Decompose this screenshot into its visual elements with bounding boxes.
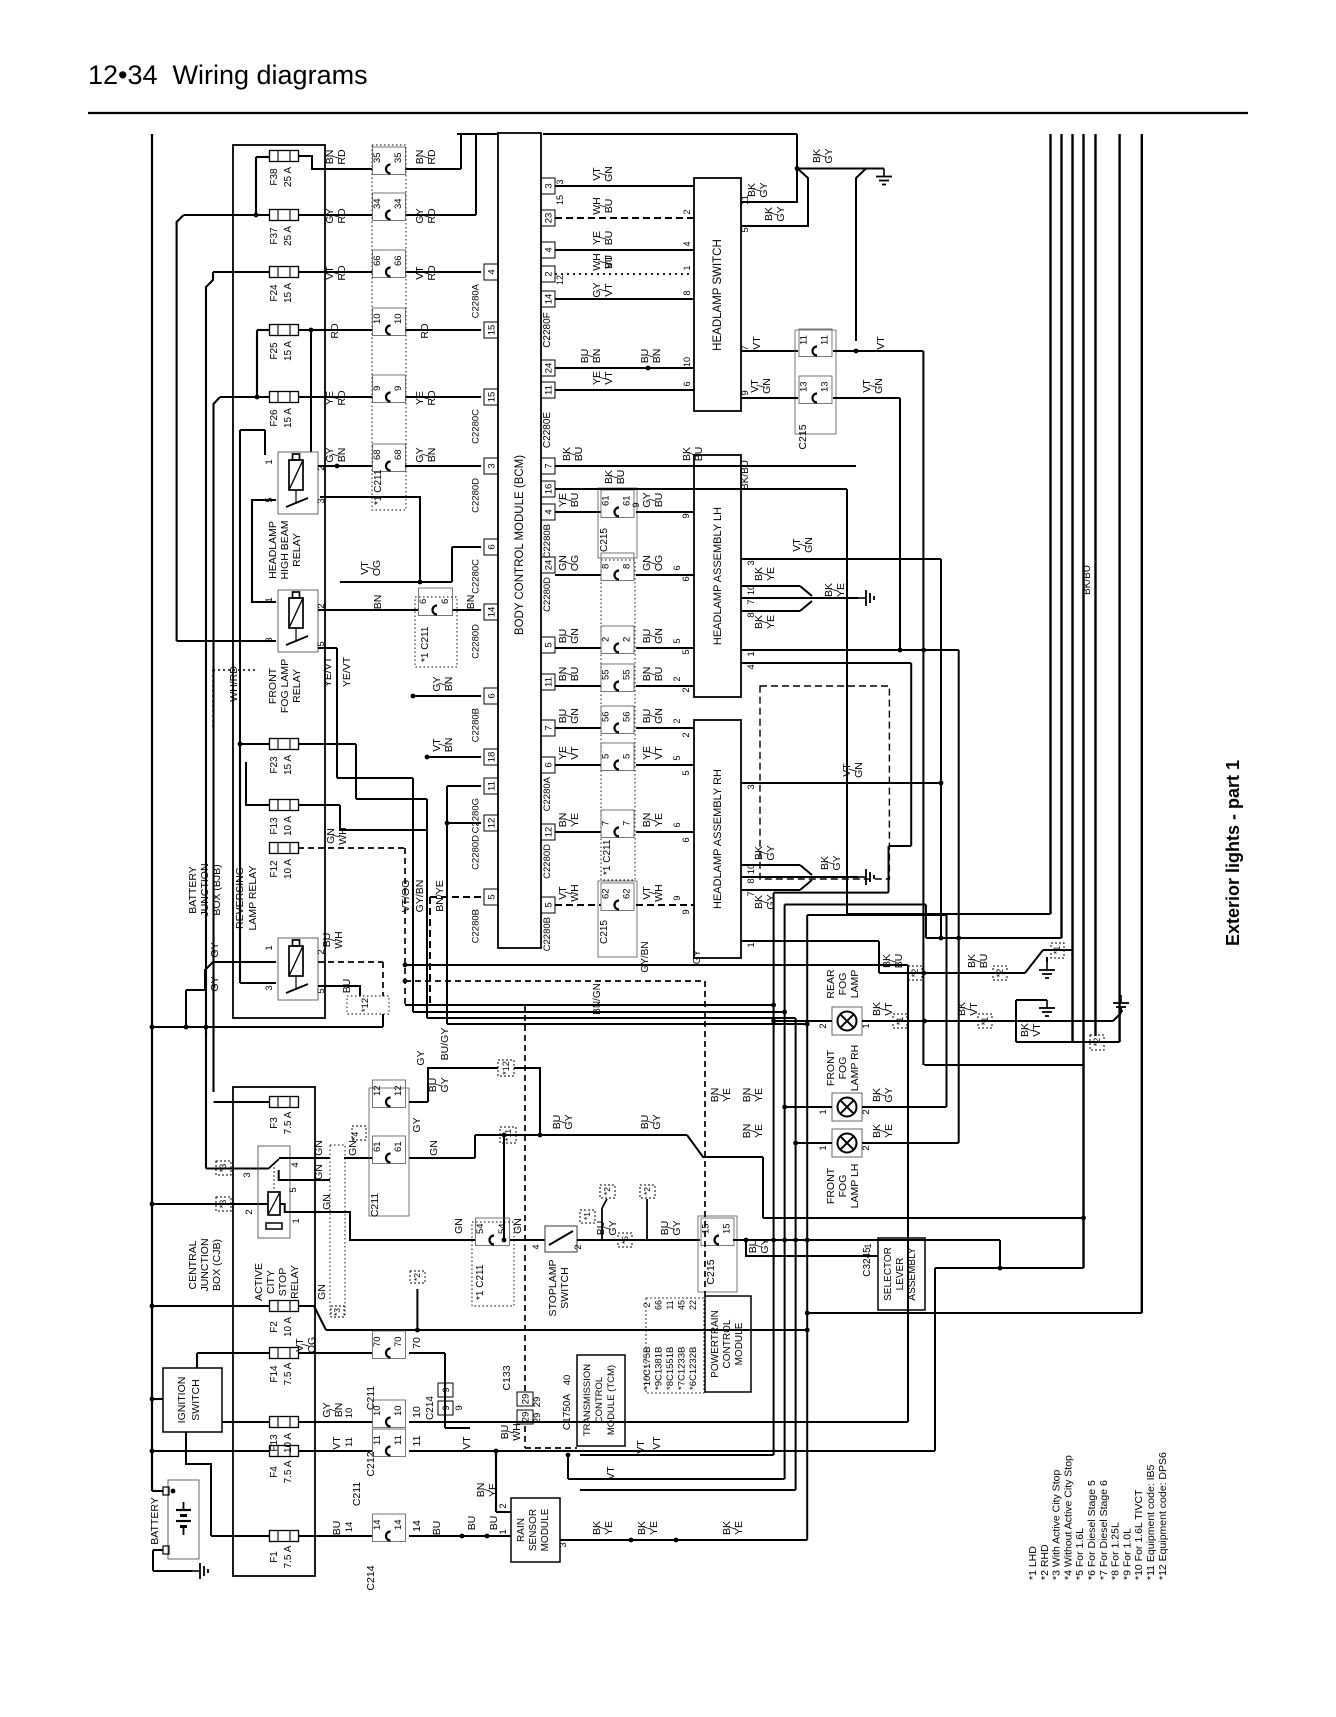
- powertrain connectors: [642, 1298, 704, 1393]
- wire selector row: [763, 1216, 1086, 1221]
- svg-text:7: 7: [544, 725, 555, 730]
- svg-text:MODULE: MODULE: [540, 1508, 551, 1551]
- svg-text:6: 6: [672, 822, 682, 827]
- svg-text:BU: BU: [431, 1521, 443, 1536]
- svg-text:WH/RD: WH/RD: [228, 666, 240, 702]
- svg-text:RD: RD: [426, 390, 438, 406]
- page title: [88, 60, 368, 90]
- connector box *3 upper: [216, 1161, 231, 1175]
- svg-text:C2280D: C2280D: [542, 844, 553, 879]
- battery symbol: [163, 1487, 191, 1554]
- svg-text:*1 C211: *1 C211: [420, 626, 431, 662]
- svg-text:18: 18: [487, 752, 498, 763]
- svg-text:GN: GN: [873, 378, 885, 394]
- svg-text:*3: *3: [218, 1200, 228, 1209]
- svg-text:VT: VT: [461, 1436, 473, 1450]
- svg-text:GN: GN: [313, 1164, 325, 1180]
- wire F23 output YE/VT: [298, 656, 356, 799]
- svg-text:6: 6: [418, 599, 429, 604]
- svg-text:9: 9: [672, 895, 682, 900]
- wire names C2280EF: [542, 312, 553, 448]
- wire row to 795: [427, 1018, 796, 1490]
- svg-text:13: 13: [820, 381, 831, 392]
- wire front fog RH pin1: [741, 1088, 832, 1115]
- wire rear fog pin2: [771, 1019, 832, 1029]
- wire F37 output GY/RD: [298, 134, 476, 224]
- svg-text:12: 12: [487, 818, 498, 829]
- wire stoplamp to C215 BU/GY: [577, 1185, 700, 1247]
- connector strip *3 dotted: [316, 1145, 345, 1317]
- svg-text:11: 11: [411, 1435, 423, 1446]
- wire F13 feed: [246, 762, 270, 805]
- label headlamp high beam relay: [267, 521, 303, 580]
- svg-text:5: 5: [622, 754, 633, 759]
- svg-text:RELAY: RELAY: [289, 1265, 301, 1299]
- wire switch 11 BK/GY: [741, 169, 797, 203]
- svg-text:YE: YE: [733, 1521, 745, 1535]
- wire rear fog pin1 BK/VT: [861, 1002, 1121, 1029]
- svg-text:2: 2: [544, 271, 555, 276]
- connector C211 pin6: [415, 588, 457, 667]
- svg-text:C212: C212: [365, 1451, 377, 1476]
- svg-text:4: 4: [544, 509, 555, 514]
- svg-text:66: 66: [372, 255, 383, 266]
- svg-text:*1 LHD: *1 LHD: [1027, 1546, 1039, 1580]
- svg-text:VT: VT: [635, 1440, 647, 1454]
- svg-text:10: 10: [372, 1405, 383, 1416]
- svg-text:BATTERY: BATTERY: [187, 866, 199, 913]
- svg-text:16: 16: [544, 484, 555, 495]
- svg-text:54: 54: [475, 1223, 486, 1234]
- svg-text:YE: YE: [835, 583, 847, 597]
- svg-text:F37: F37: [269, 227, 280, 245]
- wire tap F25: [255, 330, 270, 399]
- svg-text:55: 55: [601, 669, 612, 680]
- svg-text:*8C1551B: *8C1551B: [665, 1347, 676, 1390]
- bus wire 7 BK/BU: [805, 134, 1142, 1315]
- svg-text:GN: GN: [569, 708, 581, 724]
- svg-text:HEADLAMP SWITCH: HEADLAMP SWITCH: [712, 239, 724, 351]
- label battery: [149, 1497, 161, 1544]
- svg-text:STOPLAMP: STOPLAMP: [547, 1260, 559, 1317]
- wire BCM-switch 8 GY/VT: [541, 255, 694, 307]
- svg-text:*12 Equipment code: DPS6: *12 Equipment code: DPS6: [1157, 1452, 1169, 1580]
- dashed variant box RH: [760, 686, 889, 879]
- bus wire 1: [847, 134, 1051, 914]
- svg-text:*2: *2: [1092, 1038, 1102, 1047]
- svg-text:*1: *1: [980, 1017, 990, 1026]
- wire left trunk: [151, 134, 153, 1491]
- svg-text:ASSEMBLY: ASSEMBLY: [907, 1247, 918, 1300]
- svg-text:CITY: CITY: [265, 1270, 277, 1294]
- svg-text:2: 2: [316, 949, 327, 954]
- svg-text:11: 11: [544, 385, 555, 395]
- svg-text:3: 3: [746, 560, 757, 565]
- svg-text:*7C1233B: *7C1233B: [677, 1347, 688, 1390]
- svg-text:56: 56: [601, 711, 612, 722]
- wire dashed BCM5 left: [430, 897, 481, 1005]
- ground LH: [858, 590, 874, 606]
- body control module box: [498, 133, 541, 948]
- wire BCM7 BK/BU: [555, 460, 847, 914]
- wire F23 feed: [240, 430, 270, 744]
- svg-text:BK/BU: BK/BU: [1082, 565, 1093, 595]
- svg-text:FRONT: FRONT: [825, 1049, 837, 1086]
- relay reversing lamp: [264, 938, 327, 1000]
- diagram title Exterior lights - part 1: [1223, 760, 1243, 946]
- svg-text:BU: BU: [331, 1521, 343, 1536]
- label front fog lamp relay: [267, 659, 303, 713]
- svg-text:2: 2: [682, 209, 692, 214]
- wire rear fog loop: [925, 1064, 1084, 1066]
- svg-text:3: 3: [544, 183, 555, 188]
- wire BCM5 BU/GN to LH5: [555, 626, 694, 654]
- svg-text:*2: *2: [642, 1187, 652, 1195]
- wire ACS pin1 GN: [290, 1194, 524, 1240]
- svg-text:7.5 A: 7.5 A: [283, 1545, 294, 1568]
- svg-text:BU: BU: [653, 493, 665, 508]
- powertrain control module box: [705, 1296, 751, 1392]
- svg-text:GY: GY: [415, 1050, 427, 1065]
- wire reversing relay pin5: [318, 986, 383, 1027]
- svg-text:F23: F23: [269, 756, 280, 774]
- svg-text:9: 9: [441, 1405, 452, 1410]
- svg-text:68: 68: [372, 449, 383, 460]
- svg-text:GN: GN: [803, 537, 815, 553]
- svg-text:C2280D: C2280D: [471, 835, 482, 870]
- wire row to 784: [413, 905, 926, 1480]
- svg-text:BU: BU: [603, 199, 615, 214]
- svg-text:*1: *1: [1052, 946, 1062, 955]
- svg-text:BN: BN: [336, 448, 348, 463]
- central junction box CJB: [233, 1087, 315, 1576]
- svg-text:GY: GY: [831, 855, 843, 870]
- label rain sensor module: [516, 1508, 551, 1551]
- relay headlamp high beam: [264, 452, 327, 514]
- wire diag to row950: [1025, 943, 1073, 973]
- svg-text:5: 5: [672, 638, 682, 643]
- wire BCM-switch 10 BU/BN: [541, 349, 694, 376]
- svg-text:RD: RD: [426, 208, 438, 224]
- svg-text:FRONT: FRONT: [267, 667, 279, 704]
- svg-text:F12: F12: [269, 860, 280, 878]
- ground rear fog: [1113, 995, 1129, 1013]
- rain sensor module box: [511, 1498, 560, 1562]
- svg-text:LAMP RH: LAMP RH: [849, 1045, 861, 1092]
- svg-text:GN: GN: [653, 708, 665, 724]
- svg-text:*9C1381B: *9C1381B: [654, 1347, 665, 1390]
- svg-text:2: 2: [244, 1209, 255, 1214]
- wire BCM-switch 6 YE/VT: [541, 371, 694, 398]
- svg-text:*12: *12: [501, 1061, 511, 1075]
- svg-text:F24: F24: [269, 284, 280, 302]
- wire LH1 row: [741, 648, 959, 653]
- svg-text:BODY CONTROL MODULE (BCM): BODY CONTROL MODULE (BCM): [514, 455, 526, 635]
- svg-text:VT: VT: [651, 1436, 663, 1450]
- wire switch 5 BK/GY: [741, 169, 808, 227]
- headlamp switch box: [694, 178, 741, 411]
- svg-text:10: 10: [393, 1405, 404, 1416]
- fuse F14 7.5A: [269, 1348, 299, 1386]
- svg-text:BU: BU: [569, 493, 581, 508]
- svg-text:66: 66: [654, 1300, 664, 1310]
- svg-text:8: 8: [746, 878, 757, 883]
- wire BCM11 BN/BU to LH2: [555, 664, 694, 692]
- wire relay2 pin2 BN: [318, 595, 481, 610]
- svg-text:15: 15: [555, 195, 565, 205]
- headlamp assembly LH box: [694, 455, 741, 697]
- svg-text:BN: BN: [426, 448, 438, 463]
- svg-text:GY: GY: [765, 845, 777, 860]
- svg-text:GY: GY: [823, 148, 835, 163]
- svg-text:*6C1232B: *6C1232B: [688, 1347, 699, 1390]
- wire top ground BK/GY: [795, 134, 884, 171]
- svg-text:45: 45: [677, 1300, 687, 1310]
- wire C214 9 connector: [425, 1383, 470, 1428]
- svg-text:1: 1: [682, 265, 692, 270]
- svg-text:OG: OG: [371, 560, 383, 576]
- svg-text:15: 15: [701, 1223, 712, 1234]
- svg-text:GN: GN: [603, 166, 615, 182]
- svg-text:BN: BN: [651, 349, 663, 364]
- svg-text:GN: GN: [453, 1218, 465, 1234]
- svg-text:15 A: 15 A: [283, 341, 294, 361]
- svg-text:YE: YE: [653, 813, 665, 827]
- svg-text:FOG: FOG: [837, 973, 849, 996]
- svg-text:GN: GN: [853, 762, 865, 778]
- svg-text:1: 1: [861, 1023, 872, 1028]
- svg-text:25 A: 25 A: [283, 226, 294, 246]
- svg-text:GY: GY: [692, 949, 703, 964]
- wire BCM5b VT/WH dashed to RH9: [555, 881, 694, 957]
- svg-text:F14: F14: [269, 1365, 280, 1383]
- wire relay feed from F25: [309, 328, 314, 452]
- wire LH4 chain: [741, 663, 911, 893]
- svg-text:C215: C215: [705, 1259, 717, 1284]
- wire BK collector row: [879, 954, 1025, 980]
- svg-text:4: 4: [682, 241, 692, 246]
- svg-text:BK/BU: BK/BU: [740, 460, 751, 490]
- svg-text:1: 1: [291, 1218, 302, 1223]
- wire LH grounds BK/YE: [741, 567, 858, 629]
- svg-text:BN: BN: [443, 677, 455, 692]
- selector lever assembly box: [878, 1238, 925, 1310]
- svg-text:C2280A: C2280A: [471, 283, 482, 318]
- svg-text:WH: WH: [569, 884, 581, 902]
- svg-text:24: 24: [544, 363, 555, 374]
- svg-text:*2 RHD: *2 RHD: [1039, 1544, 1051, 1580]
- svg-text:C2280D: C2280D: [542, 577, 553, 612]
- svg-text:15 A: 15 A: [283, 755, 294, 775]
- svg-text:BOX (CJB): BOX (CJB): [211, 1239, 223, 1291]
- svg-text:10 A: 10 A: [283, 816, 294, 836]
- wire F26 output YE/RD: [298, 390, 481, 406]
- svg-text:GN: GN: [512, 1218, 524, 1234]
- svg-text:BU: BU: [604, 255, 615, 269]
- svg-text:GY: GY: [758, 182, 770, 197]
- label headlamp assembly RH: [712, 769, 724, 909]
- svg-text:10: 10: [344, 1408, 355, 1419]
- wire BCM6 YE/VT to RH5: [555, 743, 694, 771]
- svg-text:*5 For 1.6L: *5 For 1.6L: [1074, 1528, 1086, 1580]
- svg-text:CONTROL: CONTROL: [722, 1319, 733, 1368]
- svg-text:GY: GY: [651, 1114, 663, 1129]
- svg-text:29: 29: [532, 1397, 543, 1408]
- connector box *3 lower: [216, 1197, 231, 1211]
- svg-text:REAR: REAR: [825, 969, 837, 999]
- wire relay2 feed: [177, 640, 276, 642]
- footnotes: [1027, 1452, 1169, 1580]
- wire reversing relay GY: [184, 942, 276, 1029]
- svg-text:7: 7: [746, 599, 757, 604]
- svg-text:34: 34: [393, 198, 404, 209]
- svg-text:1: 1: [264, 945, 275, 950]
- wire reversing relay feed: [238, 742, 276, 983]
- wire cluster to BCM 6: [411, 676, 481, 698]
- svg-text:GY: GY: [439, 1077, 451, 1092]
- svg-text:29: 29: [532, 1413, 543, 1424]
- svg-text:2: 2: [861, 1109, 872, 1114]
- svg-text:*1 C211: *1 C211: [602, 839, 613, 875]
- svg-text:4: 4: [746, 664, 757, 669]
- wire BCM12 BN/YE to RH6: [555, 810, 694, 838]
- bus wire 2: [926, 134, 1062, 940]
- svg-text:25 A: 25 A: [283, 167, 294, 187]
- connector C211 row 54: [420, 1218, 545, 1306]
- svg-text:SELECTOR: SELECTOR: [883, 1247, 894, 1301]
- svg-text:1: 1: [746, 651, 757, 656]
- wire F38 output BN/RD: [298, 134, 461, 169]
- BCM right pins: [541, 458, 555, 951]
- bus wire 4: [1082, 134, 1084, 1268]
- svg-text:WH: WH: [337, 827, 349, 845]
- svg-text:JUNCTION: JUNCTION: [199, 863, 211, 916]
- svg-text:22: 22: [688, 1300, 698, 1310]
- wire F12 output GN/WH dashed: [298, 827, 405, 1005]
- svg-text:C1750A: C1750A: [562, 1394, 573, 1430]
- wire BCM-switch 12 WH/VT dotted: [541, 253, 694, 285]
- svg-text:TRANSMISSION: TRANSMISSION: [582, 1364, 593, 1436]
- svg-text:BATTERY: BATTERY: [149, 1497, 161, 1544]
- svg-text:*6 For Diesel Stage 5: *6 For Diesel Stage 5: [1086, 1480, 1098, 1580]
- label BCM: [514, 455, 526, 635]
- svg-text:3: 3: [746, 784, 757, 789]
- connector C215 15: [698, 1216, 737, 1292]
- svg-text:3: 3: [316, 498, 327, 503]
- svg-text:3: 3: [487, 463, 498, 468]
- svg-text:RD: RD: [426, 149, 438, 165]
- svg-text:10 A: 10 A: [283, 859, 294, 879]
- svg-text:LAMP LH: LAMP LH: [849, 1164, 861, 1209]
- svg-text:23: 23: [544, 213, 555, 224]
- ground RH: [858, 869, 874, 885]
- svg-text:IGNITION: IGNITION: [176, 1377, 188, 1424]
- wire row dashed long: [403, 979, 705, 1296]
- svg-text:RAIN: RAIN: [516, 1518, 527, 1542]
- wire tap F38: [254, 157, 270, 217]
- wire selector row2: [935, 1268, 1084, 1451]
- wire GY to BU/GY riser: [409, 1028, 763, 1218]
- svg-text:1: 1: [746, 942, 757, 947]
- wire BCM-switch 3 VT/GN: [541, 166, 694, 194]
- fuse F2 10A: [269, 1301, 299, 1338]
- svg-text:35: 35: [393, 152, 404, 163]
- svg-text:SWITCH: SWITCH: [190, 1379, 202, 1420]
- svg-text:13: 13: [799, 381, 810, 392]
- svg-text:4: 4: [531, 1244, 541, 1249]
- svg-text:10: 10: [393, 313, 404, 324]
- svg-text:*1: *1: [895, 1017, 905, 1026]
- svg-text:7.5 A: 7.5 A: [283, 1362, 294, 1385]
- fuse F24 15A: [269, 267, 299, 304]
- svg-text:4: 4: [487, 269, 498, 274]
- svg-text:YE/VT: YE/VT: [322, 656, 334, 687]
- svg-text:6: 6: [487, 693, 498, 698]
- svg-text:RELAY: RELAY: [291, 669, 303, 703]
- wire trunk to ignition switch: [150, 1397, 163, 1402]
- wire BCM4 YE/BU to LH9: [555, 488, 694, 558]
- battery junction box BJB: [233, 145, 325, 1018]
- svg-text:F3: F3: [269, 1117, 280, 1129]
- svg-text:3: 3: [558, 1542, 569, 1547]
- svg-text:1: 1: [818, 1145, 829, 1150]
- svg-text:F26: F26: [269, 409, 280, 427]
- svg-text:VT: VT: [653, 746, 665, 760]
- svg-text:FOG: FOG: [837, 1175, 849, 1198]
- svg-text:40: 40: [562, 1375, 573, 1386]
- wire BCM16 BK/BU: [555, 447, 856, 466]
- svg-text:BN: BN: [465, 595, 477, 610]
- connector C1750A 40: [562, 1375, 573, 1430]
- svg-text:6: 6: [440, 599, 451, 604]
- svg-text:3: 3: [242, 1172, 253, 1177]
- svg-text:C2280E: C2280E: [542, 412, 553, 448]
- svg-text:29: 29: [521, 1394, 532, 1405]
- svg-text:*4 Without Active City Stop: *4 Without Active City Stop: [1062, 1455, 1074, 1580]
- svg-text:14: 14: [411, 1520, 423, 1532]
- svg-text:SENSOR: SENSOR: [528, 1509, 539, 1551]
- svg-text:12: 12: [555, 275, 565, 285]
- svg-text:6: 6: [681, 576, 692, 581]
- wire row GY/BN long: [403, 941, 908, 1422]
- header rule: [88, 112, 1248, 114]
- svg-text:55: 55: [622, 669, 633, 680]
- BCM left pins: [471, 264, 499, 943]
- svg-text:BU: BU: [978, 954, 990, 969]
- svg-text:YE: YE: [765, 567, 777, 581]
- svg-text:70: 70: [393, 1336, 404, 1347]
- svg-text:VT: VT: [605, 1466, 617, 1480]
- svg-text:C2280B: C2280B: [471, 708, 482, 742]
- svg-text:5: 5: [288, 1187, 299, 1192]
- label rear fog lamp: [825, 969, 861, 999]
- svg-text:FRONT: FRONT: [825, 1167, 837, 1204]
- svg-text:WH: WH: [333, 931, 345, 949]
- svg-text:LEVER: LEVER: [895, 1258, 906, 1291]
- svg-text:SWITCH: SWITCH: [559, 1267, 571, 1308]
- svg-text:RD: RD: [329, 323, 341, 339]
- svg-text:1: 1: [863, 1243, 873, 1248]
- svg-text:35: 35: [372, 152, 383, 163]
- wire F13 row GY/BN: [222, 1400, 908, 1477]
- svg-text:C2280B: C2280B: [471, 909, 482, 943]
- wire battery to ground: [153, 1550, 192, 1571]
- svg-text:10: 10: [411, 1406, 423, 1418]
- svg-text:STOP: STOP: [277, 1268, 289, 1296]
- wire C215 to selector BU/GY: [733, 1238, 1002, 1271]
- svg-text:C133: C133: [501, 1365, 513, 1390]
- wire CJB feeds: [150, 1025, 383, 1207]
